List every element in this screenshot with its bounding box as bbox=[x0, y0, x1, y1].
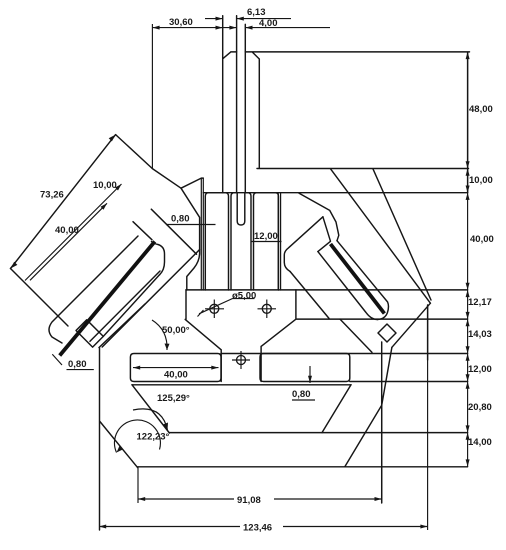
fin B bbox=[231, 193, 251, 290]
svg-text:12,17: 12,17 bbox=[468, 297, 492, 308]
4,00 arrows bbox=[229, 26, 236, 30]
right shoulder bbox=[299, 193, 339, 240]
left shoulder path: vertex at 30,60 ext bbox=[152, 169, 203, 189]
slot top extension to right bbox=[221, 353, 468, 355]
outer edge second line bbox=[373, 169, 431, 300]
fin A bbox=[205, 193, 228, 290]
left blade bbox=[60, 242, 155, 356]
right arm inner edge iA bbox=[290, 272, 329, 319]
svg-text:40,00: 40,00 bbox=[55, 225, 79, 236]
outer edge bbox=[331, 169, 431, 303]
right blade bbox=[331, 244, 385, 314]
bottom 123,46 bbox=[100, 305, 428, 530]
right slot rounded bbox=[260, 354, 350, 382]
chimney slot interior going down into fin bbox=[237, 193, 245, 225]
122,23 arc bbox=[114, 420, 160, 453]
right notch right leg and jog bbox=[318, 217, 331, 252]
svg-text:14,00: 14,00 bbox=[468, 437, 492, 448]
svg-text:91,08: 91,08 bbox=[237, 495, 261, 506]
0,80 right slot arrow bbox=[308, 376, 312, 383]
end face bbox=[392, 303, 431, 347]
6,13 dim bbox=[205, 18, 291, 20]
small tab right bbox=[378, 324, 396, 342]
4,00 dim bbox=[216, 27, 330, 29]
svg-text:30,60: 30,60 bbox=[169, 17, 193, 28]
left 57deg diagonal to notch tip bbox=[181, 188, 200, 290]
123,46 arrows bbox=[99, 525, 106, 529]
slot bottom extension to right bbox=[350, 381, 468, 383]
30,60 dim bbox=[152, 24, 222, 169]
chimney slot walls extension bbox=[223, 16, 246, 59]
hole leader bbox=[198, 299, 255, 317]
svg-text:20,80: 20,80 bbox=[468, 402, 492, 413]
0,80 left fin gap label line bbox=[166, 224, 216, 226]
svg-text:10,00: 10,00 bbox=[93, 180, 117, 191]
left wall column (tall, capped) bbox=[201, 178, 203, 290]
right slot end U and upper wall bbox=[337, 241, 388, 320]
122 deg arrow bbox=[117, 446, 124, 453]
top flange outline bbox=[246, 52, 470, 193]
body edge 45 up line bbox=[102, 250, 199, 347]
thick blades bbox=[60, 242, 385, 356]
50deg arrow bbox=[165, 344, 170, 351]
svg-text:12,00: 12,00 bbox=[468, 364, 492, 375]
svg-text:122,23°: 122,23° bbox=[137, 432, 170, 443]
top-right edge bbox=[116, 135, 153, 169]
body left edge, left chamfer, bottom face bbox=[100, 348, 468, 531]
30,60 arrows bbox=[152, 26, 159, 30]
right arm ext corner vertical bbox=[427, 305, 429, 360]
right slot lower wall bbox=[318, 252, 378, 320]
right chain vertical bbox=[467, 52, 469, 467]
svg-text:0,80: 0,80 bbox=[292, 389, 311, 400]
6,13 arrows bbox=[216, 17, 223, 21]
inner face line near end bbox=[90, 271, 160, 341]
125,29 arc bbox=[133, 409, 168, 430]
svg-text:40,00: 40,00 bbox=[164, 370, 188, 381]
plate left edge and funnel chamfer bbox=[185, 290, 221, 382]
right arm inner edge iB bbox=[340, 319, 372, 352]
73,26 arrows bbox=[11, 262, 18, 269]
plate right edge and funnel chamfer bbox=[261, 290, 468, 382]
arm bottom vertex to ext bbox=[382, 347, 392, 405]
left arm inner edge p2 bbox=[133, 222, 152, 240]
svg-text:50,00°: 50,00° bbox=[162, 325, 190, 336]
right chain arrows bbox=[466, 52, 470, 59]
svg-text:0,80: 0,80 bbox=[171, 214, 190, 225]
slot inner wall bbox=[103, 275, 159, 337]
svg-text:12,00: 12,00 bbox=[254, 231, 278, 242]
outer edge / 73,26 dim line bbox=[11, 135, 116, 269]
fins top line bbox=[203, 192, 467, 194]
top center ribs bbox=[223, 52, 246, 193]
svg-text:6,13: 6,13 bbox=[247, 7, 266, 18]
40,00 slot dim bbox=[133, 367, 219, 369]
body right chamfer and extension vertical bbox=[345, 342, 382, 503]
svg-text:48,00: 48,00 bbox=[469, 104, 493, 115]
left notch 45 line bbox=[151, 209, 196, 254]
0,80 bottom left leader bbox=[52, 354, 94, 369]
40,00 10,00 arm arrows bbox=[101, 203, 108, 210]
middle plate top line bbox=[186, 289, 468, 291]
svg-text:14,03: 14,03 bbox=[468, 329, 492, 340]
body left edge up to arm bbox=[99, 304, 145, 348]
left slot rounded bbox=[130, 354, 221, 382]
shelf under slots bbox=[132, 384, 351, 386]
40,00 slot arrows bbox=[133, 366, 140, 370]
small tab bbox=[76, 320, 103, 347]
fin C bbox=[254, 193, 279, 290]
svg-text:4,00: 4,00 bbox=[259, 18, 278, 29]
right notch hook bbox=[284, 217, 323, 272]
lower body left pocket diagonal and step line bbox=[132, 385, 468, 433]
slot hook at top bbox=[152, 242, 165, 275]
125 deg arrow bbox=[163, 423, 168, 431]
svg-text:123,46: 123,46 bbox=[243, 523, 272, 534]
50 deg arc bbox=[152, 320, 167, 350]
bottom 91,08 bbox=[138, 405, 382, 503]
svg-text:10,00: 10,00 bbox=[469, 175, 493, 186]
end face bbox=[11, 269, 69, 327]
12,00 fin label line bbox=[251, 241, 282, 243]
hole circles bbox=[210, 304, 271, 364]
svg-text:73,26: 73,26 bbox=[40, 190, 64, 201]
73,26 handled, 40/10 arm dims bbox=[25, 184, 122, 281]
hole crosshairs bbox=[205, 300, 276, 370]
svg-text:40,00: 40,00 bbox=[470, 234, 494, 245]
0,80 right slot leader bbox=[292, 366, 315, 400]
svg-text:0,80: 0,80 bbox=[68, 359, 87, 370]
slot outer wall bbox=[49, 236, 138, 343]
svg-text:125,29°: 125,29° bbox=[157, 393, 190, 404]
lower body right pocket diagonal bbox=[322, 385, 351, 433]
right wall column bbox=[278, 193, 280, 290]
91,08 arrows bbox=[138, 497, 145, 501]
svg-text:ø5,00: ø5,00 bbox=[232, 291, 256, 302]
